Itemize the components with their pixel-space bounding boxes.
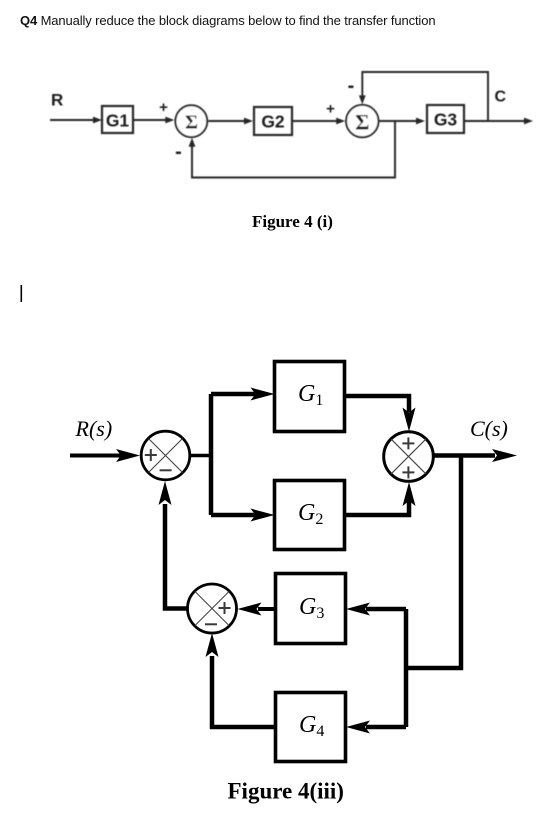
wire feedback from output node down xyxy=(406,456,461,669)
block G4 xyxy=(276,693,346,762)
wire R(s) input arrow into S1b xyxy=(70,449,140,462)
minus sign in S3b xyxy=(205,623,217,625)
wire branch to G1 xyxy=(211,388,275,401)
plus top sign in S2b xyxy=(402,437,414,449)
svg-text:Σ: Σ xyxy=(185,111,198,133)
wire G2 to summer S2 xyxy=(292,118,345,125)
wire S2b output to C(s) xyxy=(434,449,518,462)
svg-text:Q4 Manually reduce the block d: Q4 Manually reduce the block diagrams be… xyxy=(20,13,435,28)
svg-text:-: - xyxy=(175,141,182,163)
svg-text:R(s): R(s) xyxy=(75,416,113,441)
svg-text:C: C xyxy=(495,89,507,106)
svg-text:Figure 4(iii): Figure 4(iii) xyxy=(228,779,344,804)
svg-text:+: + xyxy=(326,101,335,118)
wire negative feedback from output node to S2 top xyxy=(359,72,488,121)
svg-text:C(s): C(s) xyxy=(470,416,508,441)
wire vertical feedback bus xyxy=(404,609,409,727)
wire G4 output left and up into S3b bottom xyxy=(206,633,276,727)
svg-text:R: R xyxy=(51,91,63,110)
block G3 xyxy=(276,574,346,644)
wire G3 output into S3b right xyxy=(238,603,276,616)
summing junction S2b xyxy=(384,432,434,482)
minus sign in S1b xyxy=(160,469,172,471)
svg-text:-: - xyxy=(348,75,355,97)
svg-text:+: + xyxy=(159,99,168,116)
wire bus into G3 input xyxy=(346,603,406,616)
wire G1 output into S2b top xyxy=(345,396,416,432)
wire bus into G4 input xyxy=(346,721,406,734)
wire branch to G2 xyxy=(211,509,275,522)
wire G2 output into S2b bottom xyxy=(345,482,416,515)
wire G3 to output C xyxy=(464,118,533,125)
block G1 xyxy=(275,362,345,432)
svg-text:Figure 4 (i): Figure 4 (i) xyxy=(252,212,333,231)
plus bottom sign in S2b xyxy=(402,466,414,478)
summing junction S1b xyxy=(141,431,190,480)
summing junction S1 xyxy=(175,105,207,137)
wire G1 to summer S1 xyxy=(133,117,174,124)
wire negative feedback from node after S2 down to S1 bottom xyxy=(189,121,395,178)
wire S2 to G3 xyxy=(380,118,426,125)
text cursor bar xyxy=(21,285,23,302)
block G3 xyxy=(427,105,464,133)
svg-text:G2: G2 xyxy=(261,112,285,132)
svg-text:G1: G1 xyxy=(106,111,130,131)
wire S3b output left and up into S1b bottom xyxy=(159,481,188,609)
summing junction S3b xyxy=(188,584,237,633)
wire S1b output to branch node xyxy=(190,454,213,458)
wire R input arrow into G1 xyxy=(50,117,102,124)
block G2 xyxy=(254,107,292,135)
svg-text:G3: G3 xyxy=(434,110,458,130)
block G2 xyxy=(275,481,345,550)
wire S1 to G2 xyxy=(208,118,253,125)
summing junction S2 xyxy=(346,105,378,137)
plus sign in S3b xyxy=(219,602,231,614)
svg-text:Σ: Σ xyxy=(355,109,369,134)
wire branch vertical xyxy=(209,394,214,515)
block G1 xyxy=(102,106,133,133)
plus sign in S1b xyxy=(145,449,157,461)
